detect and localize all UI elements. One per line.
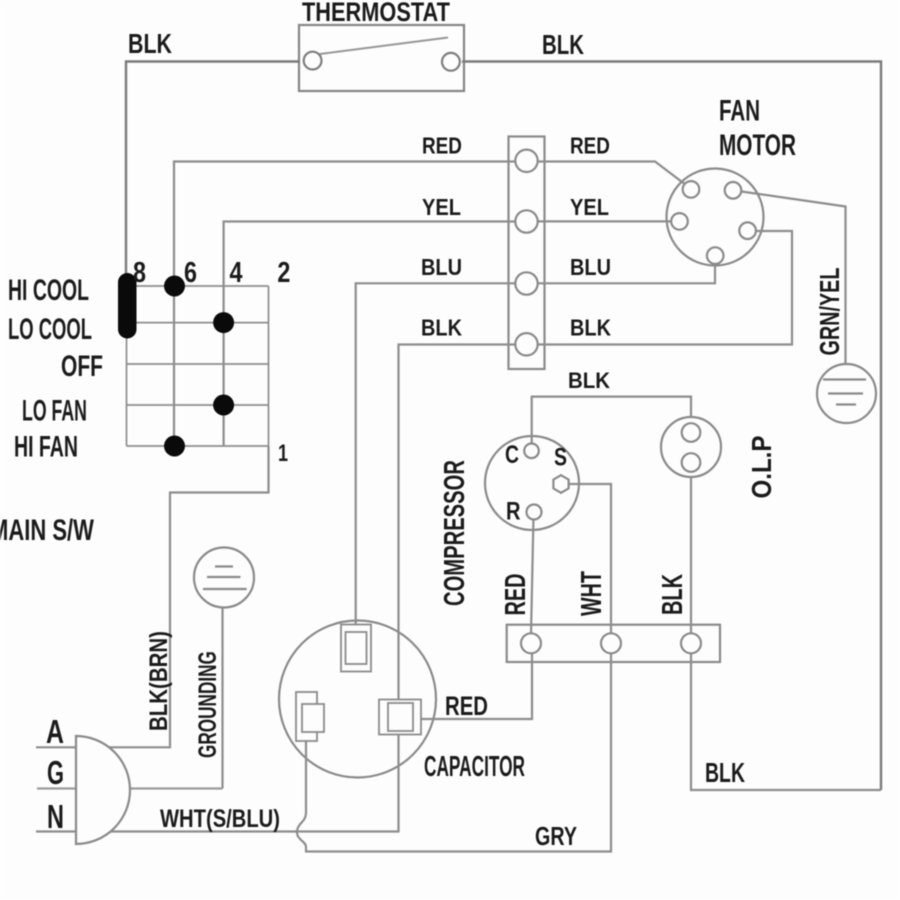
compressor body [485,436,579,530]
grounding earth symbol [194,548,254,608]
svg-text:WHT(S/BLU): WHT(S/BLU) [160,804,280,833]
svg-text:A: A [46,715,64,751]
earth ground GRN/YEL [817,364,876,423]
svg-text:BLK: BLK [128,28,172,59]
svg-text:BLU: BLU [570,255,611,281]
svg-text:1: 1 [278,441,288,467]
capacitor terminal BLU top [341,625,371,672]
main switch grid [127,272,269,446]
svg-text:RED: RED [499,574,532,616]
svg-text:YEL: YEL [422,194,461,221]
wire BLU terminal strip to fan motor [527,259,715,283]
svg-text:LO COOL: LO COOL [8,312,92,346]
wire G plug to grounding [37,787,223,789]
svg-text:OFF: OFF [61,351,103,383]
terminal strip body [509,137,545,370]
capacitor body [279,621,436,778]
wire N WHT(S/BLU) plug to capacitor [36,735,399,832]
svg-text:BLK: BLK [421,315,462,341]
svg-text:BLK(BRN): BLK(BRN) [144,631,172,731]
wire BLK capacitor right terminal to terminal strip [399,345,527,700]
svg-text:LO FAN: LO FAN [22,395,87,428]
svg-text:RED: RED [422,134,462,159]
fan motor body [667,169,764,266]
svg-text:HI COOL: HI COOL [8,274,89,307]
svg-text:YEL: YEL [570,194,609,221]
svg-text:FAN: FAN [719,95,760,128]
switch contact dot 4 LO COOL [213,312,234,333]
wire RED capacitor right to terminal block RED [421,653,532,719]
svg-text:G: G [47,755,64,792]
svg-text:GROUNDING: GROUNDING [194,651,222,758]
wire WHT compressor S to terminal block [566,484,611,634]
svg-text:CAPACITOR: CAPACITOR [424,750,525,783]
OLP body [661,417,721,477]
compressor terminal R [527,505,542,520]
svg-text:BLU: BLU [421,255,462,281]
svg-text:WHT: WHT [576,571,608,616]
wire BLK(BRN) plug A to switch pin 1 [36,446,269,747]
svg-text:BLK: BLK [542,30,584,61]
svg-text:BLK: BLK [705,758,745,789]
wire YEL switch pin 4 to terminal strip [224,222,526,447]
power plug [76,736,130,844]
wire BLK terminal block to right edge [691,653,881,790]
svg-text:6: 6 [184,256,197,289]
svg-text:MOTOR: MOTOR [719,129,796,162]
wire BLK compressor C to OLP [532,397,691,447]
svg-text:N: N [47,799,64,836]
svg-text:4: 4 [230,256,243,289]
wire RED compressor R to terminal block [531,516,534,634]
svg-text:2: 2 [277,256,290,289]
thermostat terminals [304,52,460,71]
svg-text:8: 8 [133,256,146,289]
terminal strip contacts [515,150,537,356]
OLP terminals [682,423,701,472]
wire YEL terminal strip to fan motor [527,220,676,222]
svg-text:BLK: BLK [570,315,611,341]
switch contact dot 4 LO FAN [213,395,234,416]
wire RED terminal strip to fan motor [527,162,688,187]
terminal block body [507,625,720,662]
grounding earth stem [221,589,223,789]
wire BLK thermostat right [462,62,881,791]
svg-text:C: C [505,441,519,469]
wire BLK thermostat left [126,62,300,277]
wire GRN/YEL fan motor to earth [738,191,846,380]
svg-text:S: S [554,443,567,471]
compressor terminal S [553,475,568,493]
svg-text:GRN/YEL: GRN/YEL [815,267,846,355]
compressor terminal C [524,444,539,459]
wire GRY capacitor left to terminal block WHT [297,653,611,852]
svg-text:GRY: GRY [535,821,578,850]
capacitor terminal GRY left [296,692,324,741]
terminal block contacts [521,633,701,653]
switch contact dot 6 HI FAN [164,436,185,457]
capacitor terminal RED right [379,700,421,735]
svg-text:THERMOSTAT: THERMOSTAT [302,0,450,28]
svg-text:RED: RED [570,134,610,159]
wire BLU capacitor to terminal strip [356,283,526,625]
wire BLK terminal strip to fan motor [527,231,792,345]
fan motor terminals [671,181,756,264]
svg-text:HI FAN: HI FAN [14,430,78,463]
wire RED switch pin 6 to terminal strip [174,162,526,447]
svg-text:BLK: BLK [656,574,689,615]
thermostat body [299,25,464,91]
wire BLK OLP to terminal block [690,477,692,634]
svg-text:RED: RED [445,691,488,721]
switch contact dot 6 HI COOL [164,276,185,297]
svg-text:MAIN S/W: MAIN S/W [0,513,94,547]
switch contact bar pin 8 [118,273,137,339]
svg-text:COMPRESSOR: COMPRESSOR [438,460,470,606]
svg-text:O.L.P: O.L.P [745,436,777,499]
svg-text:BLK: BLK [568,369,611,393]
svg-text:R: R [506,496,520,525]
